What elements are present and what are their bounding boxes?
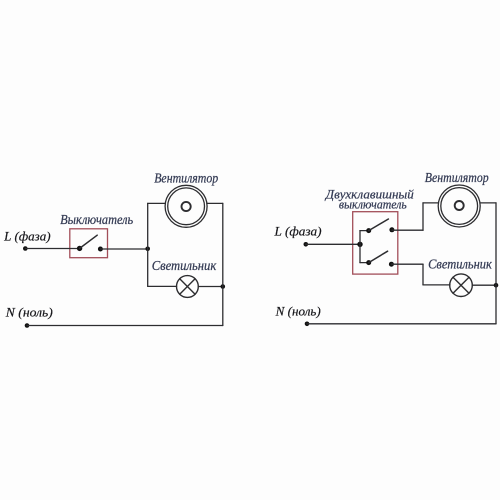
- switch S1 enclosure (red box): [70, 229, 108, 258]
- wire: neutral bottom (left): [27, 325, 223, 327]
- switch S1 throw contact: [98, 247, 103, 252]
- wire: S2b output horizontal: [391, 263, 423, 265]
- wire: fan right terminal to right vertical: [207, 202, 223, 204]
- wire: lamp EL2 right terminal to node C: [472, 284, 496, 286]
- switch S2a pole contact: [366, 228, 371, 233]
- wire: switch S1 output to node A: [100, 248, 147, 250]
- svg-text:выключатель: выключатель: [339, 197, 407, 212]
- node C junction dot (right): [494, 283, 499, 288]
- wire: right vertical return (left circuit): [222, 203, 224, 325]
- wire: fan M2 right lead to right vertical: [480, 202, 496, 204]
- svg-text:L (фаза): L (фаза): [3, 230, 50, 244]
- wire: neutral bottom (right): [307, 323, 496, 325]
- terminal dot: L phase (right): [304, 242, 309, 247]
- wire: L phase to switch S1: [25, 248, 79, 250]
- lamp EL2 (right): [450, 274, 473, 297]
- wire: L phase to switch S2 common: [306, 243, 360, 245]
- switch S2a throw contact: [389, 227, 394, 232]
- node A junction dot (left): [145, 247, 150, 252]
- wire: S2 top pole stub: [360, 230, 369, 232]
- switch S1 lever: [80, 235, 98, 248]
- wire: fan M2 left lead: [423, 202, 439, 204]
- switch S2 enclosure (red box): [353, 212, 398, 274]
- wire: to lamp EL2 left terminal: [423, 284, 450, 286]
- wire: S2 bottom pole stub: [360, 262, 369, 264]
- svg-text:N (ноль): N (ноль): [5, 306, 53, 320]
- switch S2a lever: [369, 219, 389, 231]
- wire: left vertical to fan left terminal: [148, 202, 166, 204]
- wire: S2 common vertical bus: [359, 231, 361, 263]
- node B junction dot (left): [221, 284, 226, 289]
- wire: right vertical return (right circuit): [495, 203, 497, 324]
- svg-text:Вентилятор: Вентилятор: [154, 171, 218, 186]
- lamp EL1 (left): [177, 276, 199, 298]
- terminal dot: N neutral (right): [305, 322, 310, 327]
- switch S2b throw contact: [389, 262, 394, 267]
- terminal dot: L phase (left): [23, 246, 28, 251]
- wire: S2b output drop to lamp: [422, 264, 424, 285]
- switch S2b lever: [369, 251, 388, 262]
- svg-text:Светильник: Светильник: [428, 257, 492, 272]
- wire: left branch vertical (node A to fan/lamp): [147, 203, 149, 286]
- wire: S2a output to fan (horizontal): [392, 229, 423, 231]
- wire: lamp right terminal to node B: [198, 286, 223, 288]
- wire: left vertical to lamp left terminal: [148, 285, 177, 287]
- wire: S2a output riser to fan: [422, 203, 424, 230]
- switch S1 pole contact: [77, 246, 82, 251]
- terminal dot: N neutral (left): [25, 323, 30, 328]
- switch S2b pole contact: [366, 260, 371, 265]
- fan motor M1 (left): [165, 185, 207, 227]
- svg-text:Выключатель: Выключатель: [60, 212, 133, 227]
- svg-text:N (ноль): N (ноль): [275, 304, 321, 318]
- svg-text:Светильник: Светильник: [152, 258, 217, 273]
- svg-text:L (фаза): L (фаза): [273, 225, 321, 239]
- svg-text:Вентилятор: Вентилятор: [425, 170, 489, 185]
- fan motor M2 (right): [438, 185, 480, 227]
- switch S2 common junction dot: [357, 242, 362, 247]
